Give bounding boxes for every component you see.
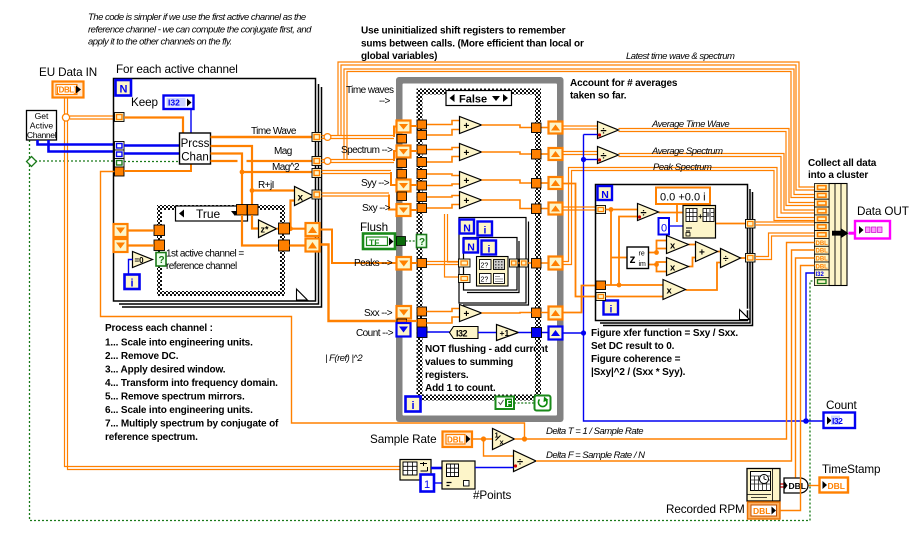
- wire count (blue tree): [563, 135, 824, 422]
- svg-text:reference channel: reference channel: [166, 261, 237, 272]
- svg-text:Mag^2: Mag^2: [272, 162, 300, 173]
- tunnel True left 2: [154, 240, 165, 251]
- svg-text:2... Remove DC.: 2... Remove DC.: [105, 351, 179, 362]
- control Sample Rate DBL: [443, 432, 473, 448]
- svg-text:[DBL]: [DBL]: [57, 86, 77, 95]
- svg-text:7... Multiply spectrum by conj: 7... Multiply spectrum by conjugate of: [105, 419, 279, 430]
- op add coherence: [696, 242, 718, 262]
- svg-text:EU Data IN: EU Data IN: [39, 66, 97, 79]
- i terminal inner: [482, 241, 497, 256]
- comment figure xfer: [591, 328, 738, 378]
- svg-text:Mag: Mag: [274, 146, 292, 157]
- while loop count down arrow (blue): [397, 323, 411, 337]
- bundle terminal glyphs: [818, 186, 827, 237]
- wire i to =0: [129, 260, 133, 275]
- wire Syy sum to xfer loop: [563, 184, 597, 297]
- svg-text:+: +: [464, 121, 470, 132]
- svg-text:+1: +1: [500, 328, 510, 338]
- control Recorded RPM DBL: [748, 502, 781, 519]
- node ring junction time wave: [324, 134, 331, 141]
- svg-text:N: N: [467, 242, 475, 254]
- wire Sxx feed |F(ref)|^2 (from SR2): [320, 245, 397, 322]
- wire delta T: [515, 243, 815, 440]
- wire Mag label row out: [211, 160, 313, 162]
- svg-text:DBL: DBL: [816, 241, 829, 247]
- wire I32 to +1: [478, 332, 497, 334]
- wire cluster out (pink): [849, 232, 856, 235]
- N terminal outer: [460, 220, 475, 235]
- svg-text:registers.: registers.: [425, 370, 469, 381]
- wire SR2 to case: [128, 244, 155, 246]
- constant 1: [421, 468, 443, 492]
- svg-text:DBL: DBL: [753, 506, 770, 516]
- op multiply sxx*syy: [663, 280, 686, 300]
- comment text shift registers: [361, 26, 584, 63]
- constant 0: [659, 218, 670, 235]
- svg-text:+: +: [464, 196, 470, 207]
- peaks icon box: [477, 257, 509, 287]
- xfer for-loop frame: [596, 185, 753, 326]
- False case border: [420, 92, 539, 398]
- pages cluster right tunnels: [510, 259, 529, 267]
- svg-text:I32: I32: [456, 329, 468, 339]
- count row: I32 conversion: [428, 327, 479, 339]
- case tunnel count right (solid blue): [532, 328, 542, 338]
- svg-text:÷: ÷: [601, 126, 607, 138]
- svg-text:N: N: [463, 223, 471, 235]
- svg-text:Sample Rate: Sample Rate: [370, 433, 436, 446]
- while loop (gray): [396, 77, 564, 422]
- xfer tunnel out 2: [746, 254, 756, 263]
- shift register left 1 (down arrow): [114, 224, 128, 237]
- svg-text:Syy -->: Syy -->: [361, 178, 390, 189]
- svg-text:0.0 +0.0 i: 0.0 +0.0 i: [660, 192, 706, 204]
- tunnel EU array in: [115, 113, 125, 122]
- wire average spectrum out: [619, 154, 815, 214]
- svg-text:DBL: DBL: [816, 264, 829, 270]
- svg-text:÷: ÷: [517, 457, 523, 469]
- wire latest spectrum (up and right): [344, 69, 815, 198]
- node real time clock icon: [747, 469, 780, 502]
- wire add sxx out: [482, 312, 549, 315]
- wire Syy to while loop: [322, 171, 392, 174]
- svg-text:DBL: DBL: [816, 257, 829, 263]
- svg-text:1st active channel =: 1st active channel =: [166, 249, 244, 260]
- pages cluster outer mini for-loop: [459, 218, 529, 306]
- svg-text:#Points: #Points: [473, 489, 512, 502]
- svg-text:Flush: Flush: [360, 221, 388, 234]
- svg-text:x: x: [670, 241, 676, 252]
- xfer wires inside: [606, 204, 746, 297]
- wire Mag^2 branch: [242, 171, 313, 173]
- wire sample rate: [472, 438, 493, 440]
- coerced DBL bubble: [781, 478, 809, 493]
- wire Sxx sum to xfer loop: [563, 286, 597, 313]
- wire time wave to while loop: [322, 136, 395, 139]
- comment account averages: [570, 78, 678, 102]
- svg-text:Recorded RPM: Recorded RPM: [666, 503, 745, 516]
- inner pages cluster: wires vertical double: [426, 214, 459, 277]
- wire sample rate feed (long orange): [101, 172, 525, 440]
- wire average time wave out: [619, 129, 815, 206]
- for-loop N terminal: [116, 80, 132, 96]
- tunnel True top 2 (solid): [248, 205, 259, 216]
- svg-text:0: 0: [661, 223, 667, 235]
- svg-text:Time waves: Time waves: [346, 85, 394, 96]
- svg-text:3... Apply desired window.: 3... Apply desired window.: [105, 365, 226, 376]
- op divide delta F: [514, 451, 537, 472]
- svg-text:Set DC result to 0.: Set DC result to 0.: [591, 341, 675, 352]
- xfer loop page curl: [740, 310, 750, 320]
- svg-text:global variables): global variables): [361, 51, 437, 62]
- node: wire junction ring EU: [62, 114, 69, 121]
- svg-text:reference channel - we can com: reference channel - we can compute the c…: [88, 25, 312, 36]
- xfer i terminal: [604, 301, 619, 316]
- node flush junction square: [397, 237, 406, 246]
- svg-text:Process each channel :: Process each channel :: [105, 323, 213, 334]
- wire Keep to Prcss: [190, 109, 192, 133]
- op add 3: [460, 172, 482, 189]
- wire inside True: to conjugate: [252, 215, 258, 229]
- svg-text:Get: Get: [35, 111, 49, 121]
- svg-text:Figure xfer function = Sxy / S: Figure xfer function = Sxy / Sxx.: [591, 328, 738, 339]
- xfer tunnel Sxy in: [596, 206, 606, 214]
- svg-text:÷: ÷: [641, 208, 647, 220]
- tunnel Time Wave out: [312, 133, 322, 142]
- svg-text:For each active channel: For each active channel: [116, 63, 238, 76]
- wires case right to up arrows: [541, 128, 549, 209]
- op reciprocal 1/x: [493, 429, 515, 450]
- case tunnels left column (solid orange): [417, 120, 427, 328]
- control EU Data IN [DBL]: [53, 82, 84, 98]
- svg-text:-->: -->: [379, 96, 391, 107]
- wire xfer out to cluster: [755, 222, 815, 260]
- op add sxx: [460, 305, 482, 322]
- op divide avg time wave: [598, 122, 619, 139]
- svg-text:+: +: [698, 212, 703, 221]
- svg-text:Time Wave: Time Wave: [251, 126, 297, 137]
- wire +1 to tunnel: [519, 332, 549, 334]
- tunnel Sxy out: [312, 190, 322, 199]
- svg-text:2?: 2?: [481, 277, 489, 284]
- svg-text:Average Time Wave: Average Time Wave: [651, 119, 729, 130]
- svg-text:True: True: [196, 207, 221, 221]
- svg-text:+: +: [699, 248, 705, 259]
- tunnel True top 1 (solid): [237, 205, 248, 216]
- svg-text:?: ?: [159, 255, 165, 266]
- tunnel green: [115, 159, 125, 168]
- wire avg spectrum input: [563, 152, 598, 155]
- svg-text:z*: z*: [261, 225, 270, 235]
- xfer tunnel out 1: [746, 220, 756, 229]
- svg-text:4... Transform into frequency: 4... Transform into frequency domain.: [105, 378, 278, 389]
- case tunnels right column (solid orange): [532, 123, 542, 318]
- False case selector: [446, 91, 512, 106]
- constant 0.0 +0.0 i: [656, 188, 710, 205]
- wire 0 to build complex: [669, 225, 683, 227]
- node junction to multiply: [288, 226, 293, 231]
- svg-text:Average Spectrum: Average Spectrum: [651, 146, 723, 157]
- True case selector: [176, 206, 248, 221]
- svg-text:÷: ÷: [601, 151, 607, 163]
- op add 2: [460, 144, 482, 161]
- svg-text:apply it to the other channels: apply it to the other channels on the fl…: [88, 37, 232, 48]
- wire conj up to multiply: [291, 201, 295, 229]
- wire sxx adder: [427, 309, 460, 324]
- svg-text:Delta F = Sample Rate / N: Delta F = Sample Rate / N: [546, 450, 645, 461]
- wire EU array (double orange): [65, 98, 402, 470]
- op increment +1: [497, 325, 519, 341]
- tunnel Mag^2 out: [312, 169, 322, 178]
- control Flush TF: [363, 234, 395, 250]
- case selector terminal ?: [156, 253, 166, 267]
- svg-text:Prcss: Prcss: [181, 138, 210, 150]
- svg-text:Active: Active: [30, 121, 54, 131]
- wire active channel arrays (blue): [38, 140, 115, 152]
- indicator Count I32: [824, 413, 856, 429]
- svg-text:I32: I32: [832, 416, 843, 426]
- wire passthrough to SR: [290, 244, 307, 246]
- op add 4: [460, 192, 482, 209]
- svg-text:Latest time wave & spectrum: Latest time wave & spectrum: [626, 51, 735, 62]
- node: green diamond junction: [27, 157, 37, 167]
- case tunnel count (solid blue): [417, 327, 427, 338]
- comment process each channel: [105, 323, 279, 443]
- wire sxx into case: [407, 320, 418, 322]
- svg-text:5... Remove spectrum mirrors.: 5... Remove spectrum mirrors.: [105, 392, 245, 403]
- node array size icon: [400, 460, 431, 481]
- wire blue in loop 1: [124, 144, 179, 146]
- wire R+jI branch: [252, 189, 294, 191]
- wire flush boolean: [406, 240, 417, 242]
- svg-text:R+jI: R+jI: [258, 180, 274, 191]
- wire green in loop: [124, 161, 179, 163]
- svg-text:Use uninitialized shift regist: Use uninitialized shift registers to rem…: [361, 26, 566, 37]
- for-loop page curl: [297, 289, 308, 300]
- pages cluster left tunnels: [459, 259, 471, 283]
- wire avg time wave input: [563, 126, 598, 129]
- comment text top-left: [88, 12, 312, 48]
- op equals zero: [133, 252, 153, 268]
- svg-text:x: x: [298, 193, 304, 204]
- svg-text:I32: I32: [168, 98, 180, 108]
- svg-text:2?: 2?: [481, 263, 489, 270]
- svg-text:N: N: [601, 189, 609, 201]
- wire sample rate to deltaF divide: [484, 439, 514, 456]
- comment NOT flushing: [425, 344, 549, 394]
- svg-text:values to summing: values to summing: [425, 357, 513, 368]
- wire SR1 to case: [128, 229, 155, 231]
- xfer tunnel Syy in: [596, 293, 606, 301]
- svg-text:Sxy -->: Sxy -->: [362, 203, 391, 214]
- wire stubs arrows to case: [411, 126, 418, 263]
- while loop left border nodes: down arrows and squares: [397, 121, 412, 328]
- svg-text:Account for # averages: Account for # averages: [570, 78, 678, 89]
- wire samplerate in loop: [124, 164, 191, 171]
- node build complex array: [683, 206, 716, 239]
- svg-text:6... Scale into engineering un: 6... Scale into engineering units.: [105, 405, 253, 416]
- svg-text:Keep: Keep: [131, 96, 158, 109]
- op divide xfer: [638, 204, 659, 221]
- svg-text:NOT flushing - add current: NOT flushing - add current: [425, 344, 549, 355]
- svg-text:Channel: Channel: [27, 130, 57, 140]
- wire N points (blue): [475, 467, 514, 469]
- wire Sxy sum to xfer loop: [563, 207, 597, 210]
- svg-text:into a cluster: into a cluster: [808, 170, 868, 181]
- while loop count up arrow (blue): [549, 327, 563, 340]
- svg-text:=0: =0: [135, 256, 145, 265]
- svg-text:i: i: [484, 225, 487, 237]
- while loop right border: up arrows: [549, 122, 563, 320]
- node Prcss Chan: [180, 133, 211, 164]
- wire F to condition: [514, 402, 535, 404]
- svg-text:DBL: DBL: [828, 481, 845, 491]
- shift register right 1 (up arrow): [306, 223, 320, 236]
- wire inside True: passthrough: [242, 215, 279, 246]
- svg-text:1: 1: [424, 479, 430, 491]
- boolean constant F: [496, 397, 515, 410]
- i terminal outer: [478, 222, 493, 237]
- tunnel True right 2 (solid): [279, 240, 290, 251]
- svg-text:+: +: [464, 148, 470, 159]
- xfer tunnel Sxx in (solid): [596, 281, 606, 290]
- control Keep I32: [164, 96, 194, 110]
- shift register right 2 (up arrow): [306, 239, 320, 252]
- tunnel sample-rate (solid orange): [115, 167, 125, 176]
- wire timestamp: [809, 485, 820, 487]
- pages cluster inner mini for-loop: [464, 238, 520, 293]
- wire spectrum to while loop: [322, 160, 395, 163]
- svg-text:Sxx -->: Sxx -->: [364, 308, 393, 319]
- svg-text:+: +: [464, 176, 470, 187]
- op multiply (R+jI x conj): [295, 187, 314, 206]
- wires adder outputs: [482, 125, 532, 209]
- svg-text:Peaks -->: Peaks -->: [354, 258, 393, 269]
- svg-text:False: False: [459, 94, 487, 106]
- svg-text:re: re: [639, 251, 645, 258]
- svg-text:Data OUT: Data OUT: [857, 205, 909, 218]
- svg-text:The code is simpler if we use: The code is simpler if we use the first …: [88, 12, 306, 23]
- svg-text:im: im: [639, 261, 647, 268]
- xfer N terminal: [598, 186, 613, 201]
- wires peaks out: [518, 262, 549, 264]
- op divide avg spectrum: [598, 147, 619, 164]
- svg-text:Spectrum -->: Spectrum -->: [341, 145, 393, 156]
- shift register left 2 (down arrow): [114, 239, 128, 252]
- loop condition terminal: [535, 396, 551, 411]
- iteration terminal i (for loop): [125, 275, 140, 290]
- N terminal inner: [464, 239, 479, 254]
- tunnel blue 1: [115, 142, 125, 151]
- True case structure: [160, 208, 283, 294]
- op multiply im^2: [667, 258, 689, 276]
- op add 1: [460, 117, 482, 134]
- boolean wire active-channels (green dotted frame): [30, 140, 815, 521]
- svg-text:÷: ÷: [723, 254, 729, 265]
- node bundle cluster: [829, 184, 847, 286]
- wire Time Wave out: [211, 136, 313, 138]
- svg-text:DBL: DBL: [447, 436, 464, 445]
- node z re/im: [627, 247, 649, 269]
- op multiply re^2: [667, 236, 689, 254]
- wire z* out: [277, 228, 307, 230]
- svg-text:reference spectrum.: reference spectrum.: [105, 432, 198, 443]
- case selector terminal ?: [417, 235, 427, 249]
- svg-text:Count: Count: [826, 399, 858, 412]
- svg-text:|Sxy|^2 / (Sxx * Syy).: |Sxy|^2 / (Sxx * Syy).: [591, 367, 686, 378]
- svg-text:Add 1 to count.: Add 1 to count.: [425, 383, 496, 394]
- wire EU in loop: [124, 118, 183, 134]
- wire delta F: [536, 250, 815, 461]
- svg-text:?: ?: [419, 237, 425, 248]
- svg-text:x: x: [667, 286, 673, 297]
- svg-text:Figure coherence =: Figure coherence =: [591, 354, 681, 365]
- wire peak spectrum: [563, 168, 815, 265]
- svg-text:i: i: [488, 244, 491, 256]
- svg-text:| F(ref) |^2: | F(ref) |^2: [325, 353, 363, 364]
- svg-text:TimeStamp: TimeStamp: [822, 463, 881, 476]
- bundle output arrow: [832, 228, 849, 238]
- svg-text:sums between calls. (More eff: sums between calls. (More efficient than…: [361, 39, 584, 50]
- tunnel Mag out: [312, 157, 322, 166]
- wire Sxy to while loop: [322, 193, 390, 196]
- svg-text:i: i: [610, 304, 613, 316]
- svg-text:taken so far.: taken so far.: [570, 91, 627, 102]
- svg-text:Peak Spectrum: Peak Spectrum: [653, 162, 712, 173]
- node Get Active Channel: [27, 111, 57, 141]
- wire latest time wave (up and right): [338, 62, 815, 190]
- svg-text:DBL: DBL: [816, 249, 829, 255]
- svg-text:Count -->: Count -->: [356, 328, 394, 339]
- tunnel blue 2: [115, 150, 125, 159]
- node ring junction spectrum: [324, 158, 331, 165]
- svg-text:Chan: Chan: [181, 152, 209, 164]
- False case inner content: wires to adders row1: [426, 121, 460, 209]
- svg-text:Collect all data: Collect all data: [808, 158, 877, 169]
- svg-text:x: x: [670, 263, 676, 274]
- tunnel True right 1 (solid): [279, 223, 290, 234]
- node index array icon: [442, 461, 475, 489]
- svg-text:z: z: [630, 252, 636, 266]
- wire blue in loop 2: [124, 152, 179, 154]
- wire Mag out (down x252): [211, 146, 253, 205]
- svg-text:DBL: DBL: [789, 481, 806, 491]
- indicator TimeStamp DBL: [820, 478, 849, 493]
- svg-text:1... Scale into engineering un: 1... Scale into engineering units.: [105, 338, 253, 349]
- svg-text:F: F: [507, 399, 512, 408]
- svg-text:I32: I32: [816, 272, 825, 278]
- wire RPM to cluster: [780, 266, 815, 511]
- tunnel True left 1: [154, 225, 165, 236]
- svg-text:TF: TF: [369, 238, 379, 248]
- svg-text:i: i: [411, 400, 414, 412]
- iteration terminal i (while loop): [406, 397, 421, 413]
- wire Mag^2 out (down x242): [211, 154, 243, 205]
- op divide coherence: [721, 249, 741, 268]
- svg-text:i: i: [130, 278, 133, 290]
- svg-text:N: N: [120, 84, 128, 96]
- wire peaks feed (from SR1): [320, 230, 397, 264]
- svg-text:Delta T = 1 / Sample Rate: Delta T = 1 / Sample Rate: [546, 426, 643, 437]
- op conjugate z*: [259, 220, 277, 238]
- svg-text:+: +: [464, 309, 470, 320]
